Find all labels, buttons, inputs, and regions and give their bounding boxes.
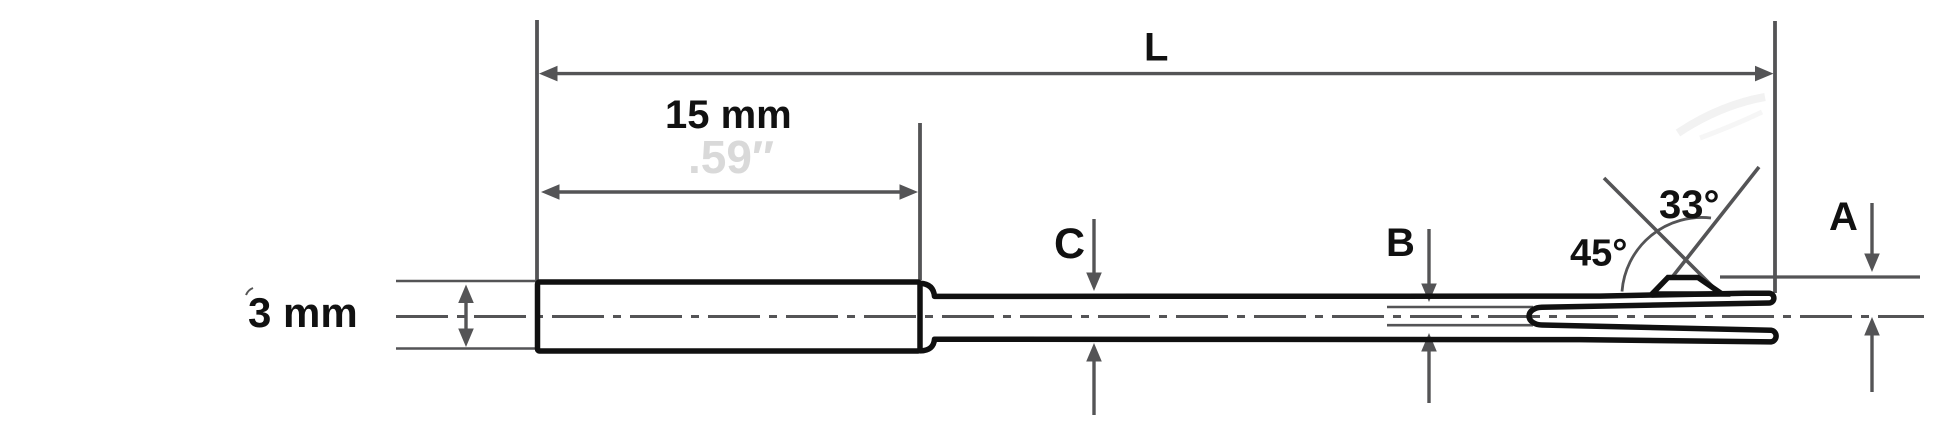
svg-text:A: A <box>1829 195 1858 239</box>
svg-text:B: B <box>1386 221 1415 265</box>
svg-text:15 mm: 15 mm <box>665 93 792 137</box>
svg-text:33°: 33° <box>1659 183 1720 227</box>
svg-text:45°: 45° <box>1570 233 1627 275</box>
svg-text:.59″: .59″ <box>688 131 774 183</box>
svg-text:C: C <box>1054 220 1085 268</box>
svg-text:L: L <box>1144 26 1168 70</box>
svg-text:3 mm: 3 mm <box>248 289 358 336</box>
